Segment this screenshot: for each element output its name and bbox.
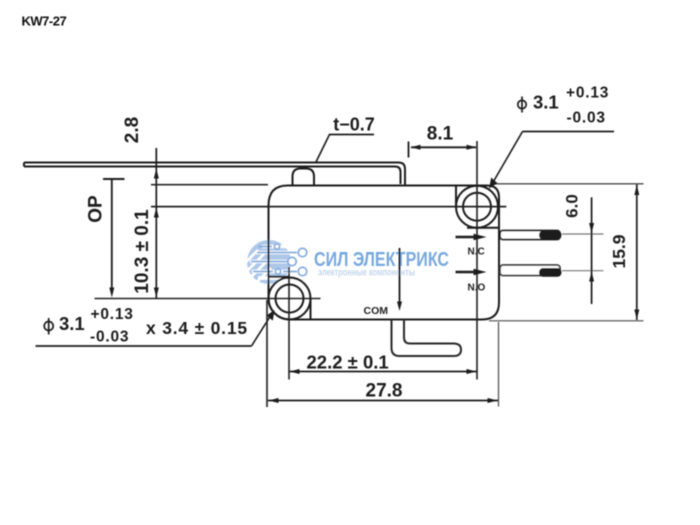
svg-text:t−0.7: t−0.7 <box>333 115 375 135</box>
svg-text:+0.13: +0.13 <box>91 306 134 323</box>
dim 2.8 arrows <box>154 169 159 179</box>
hole TR vertical centerline <box>476 141 478 380</box>
svg-text:электронные компоненты: электронные компоненты <box>318 268 415 279</box>
mounting hole top-right inner <box>463 193 491 221</box>
body bottom extension right <box>489 320 644 322</box>
phi 3.1 bottom-left callout <box>36 306 275 346</box>
boss BL top tangent <box>268 276 290 278</box>
boss TR left tangent <box>455 186 457 207</box>
svg-text:22.2 ± 0.1: 22.2 ± 0.1 <box>307 352 389 373</box>
svg-text:KW7-27: KW7-27 <box>22 14 67 29</box>
boss BL right tangent <box>310 299 312 321</box>
body top extension right <box>492 183 644 185</box>
dimension 6.0 <box>589 197 594 304</box>
lever arm <box>24 163 405 185</box>
svg-text:3.1: 3.1 <box>59 313 85 334</box>
watermark logo <box>244 240 307 284</box>
svg-text:6.0: 6.0 <box>563 194 582 218</box>
svg-text:27.8: 27.8 <box>366 381 403 402</box>
svg-text:+0.13: +0.13 <box>566 85 609 102</box>
dimension 27.8 <box>267 300 499 407</box>
switch body outline <box>269 186 500 320</box>
mounting hole bottom-left boss circle <box>269 278 311 320</box>
hole BL vertical centerline <box>288 267 290 380</box>
N.O internal arrow <box>456 269 487 276</box>
dim 10.3 arrows <box>154 208 159 218</box>
dimension 15.9 <box>634 185 639 321</box>
svg-text:N.C: N.C <box>468 247 485 258</box>
seam / hole centerline horizontal <box>151 206 506 208</box>
COM pointer arrow <box>397 248 402 311</box>
svg-text:OP: OP <box>86 195 107 223</box>
svg-text:10.3 ± 0.1: 10.3 ± 0.1 <box>132 209 153 294</box>
svg-text:-0.03: -0.03 <box>567 110 606 127</box>
plunger button <box>293 169 315 186</box>
terminal N.C prong <box>500 231 604 240</box>
body top extension left <box>151 184 268 186</box>
svg-text:N.O: N.O <box>468 283 486 294</box>
dimension 22.2 ± 0.1 <box>289 369 477 374</box>
N.C internal arrow <box>456 234 487 241</box>
svg-text:8.1: 8.1 <box>427 124 454 145</box>
phi 3.1 top-right callout <box>489 85 614 189</box>
svg-text:2.8: 2.8 <box>122 117 143 143</box>
COM terminal <box>392 319 462 356</box>
mounting hole bottom-left inner <box>276 285 304 313</box>
svg-text:COM: COM <box>364 305 389 317</box>
dimension 8.1 <box>409 142 477 158</box>
hole BL horizontal centerline <box>95 298 321 300</box>
svg-text:15.9: 15.9 <box>609 234 629 268</box>
terminal N.O prong <box>500 265 604 277</box>
mounting hole top-right boss circle <box>456 186 498 228</box>
dimension 2.8 / 10.3 line <box>155 148 157 298</box>
svg-text:3.1: 3.1 <box>533 92 559 113</box>
svg-text:x 3.4 ± 0.15: x 3.4 ± 0.15 <box>146 318 248 338</box>
svg-text:-0.03: -0.03 <box>90 329 129 346</box>
boss TR bottom tangent <box>467 227 500 229</box>
OP dimension <box>103 179 125 298</box>
